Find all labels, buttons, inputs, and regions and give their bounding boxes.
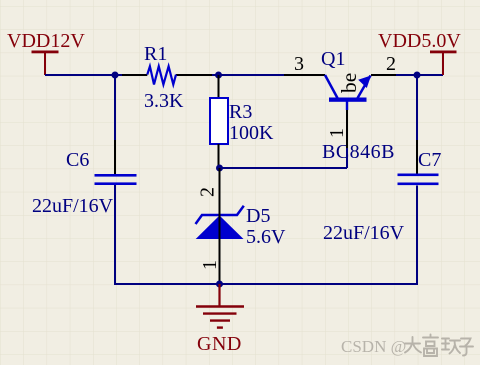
- svg-text:VDD5.0V: VDD5.0V: [378, 30, 461, 52]
- pin 3 collector wire stub: [284, 53, 325, 75]
- svg-text:100K: 100K: [229, 122, 274, 144]
- capacitor C7 22uF/16V: [323, 75, 441, 284]
- svg-text:C6: C6: [66, 149, 89, 171]
- node junction at C6 top: [112, 72, 119, 79]
- svg-text:R1: R1: [144, 43, 167, 65]
- node junction at C7 top: [414, 72, 421, 79]
- svg-text:GND: GND: [197, 333, 242, 355]
- ground GND: [196, 284, 244, 355]
- wire bottom rail: [114, 283, 418, 285]
- power symbol VDD12V: [7, 30, 85, 75]
- node junction at R1/R3: [215, 72, 222, 79]
- node junction base net: [216, 165, 223, 172]
- svg-text:22uF/16V: 22uF/16V: [32, 195, 114, 217]
- svg-text:22uF/16V: 22uF/16V: [323, 222, 405, 244]
- wire emitter to VDD5.0V: [396, 74, 443, 76]
- svg-text:R3: R3: [229, 101, 252, 123]
- pin 2 emitter wire stub: [371, 53, 396, 75]
- svg-text:2: 2: [386, 53, 396, 75]
- svg-text:D5: D5: [246, 205, 270, 227]
- svg-text:1: 1: [326, 128, 348, 138]
- zener diode D5 5.6V: [196, 168, 287, 284]
- transistor Q1 BC846B: [321, 48, 395, 163]
- wire base net R3 to Q1: [220, 167, 348, 169]
- power symbol VDD5.0V: [378, 30, 461, 75]
- resistor R1 3.3K: [144, 43, 184, 112]
- svg-text:3: 3: [294, 53, 304, 75]
- svg-text:VDD12V: VDD12V: [7, 30, 85, 52]
- svg-text:Q1: Q1: [321, 48, 345, 70]
- svg-text:C7: C7: [418, 149, 441, 171]
- capacitor C6 22uF/16V: [32, 75, 137, 284]
- svg-text:CSDN @: CSDN @: [341, 337, 406, 356]
- svg-text:BC846B: BC846B: [322, 141, 395, 163]
- node junction at GND: [216, 281, 223, 288]
- svg-text:3.3K: 3.3K: [144, 90, 184, 112]
- watermark CSDN @大高玩子: [341, 335, 473, 357]
- svg-text:1: 1: [199, 260, 221, 270]
- svg-text:be: be: [337, 73, 361, 93]
- svg-text:5.6V: 5.6V: [246, 226, 286, 248]
- resistor R3 100K: [210, 75, 274, 168]
- pin 1 base wire stub: [326, 101, 348, 168]
- wire net VDD12V top rail: [45, 74, 284, 76]
- svg-text:2: 2: [197, 187, 219, 197]
